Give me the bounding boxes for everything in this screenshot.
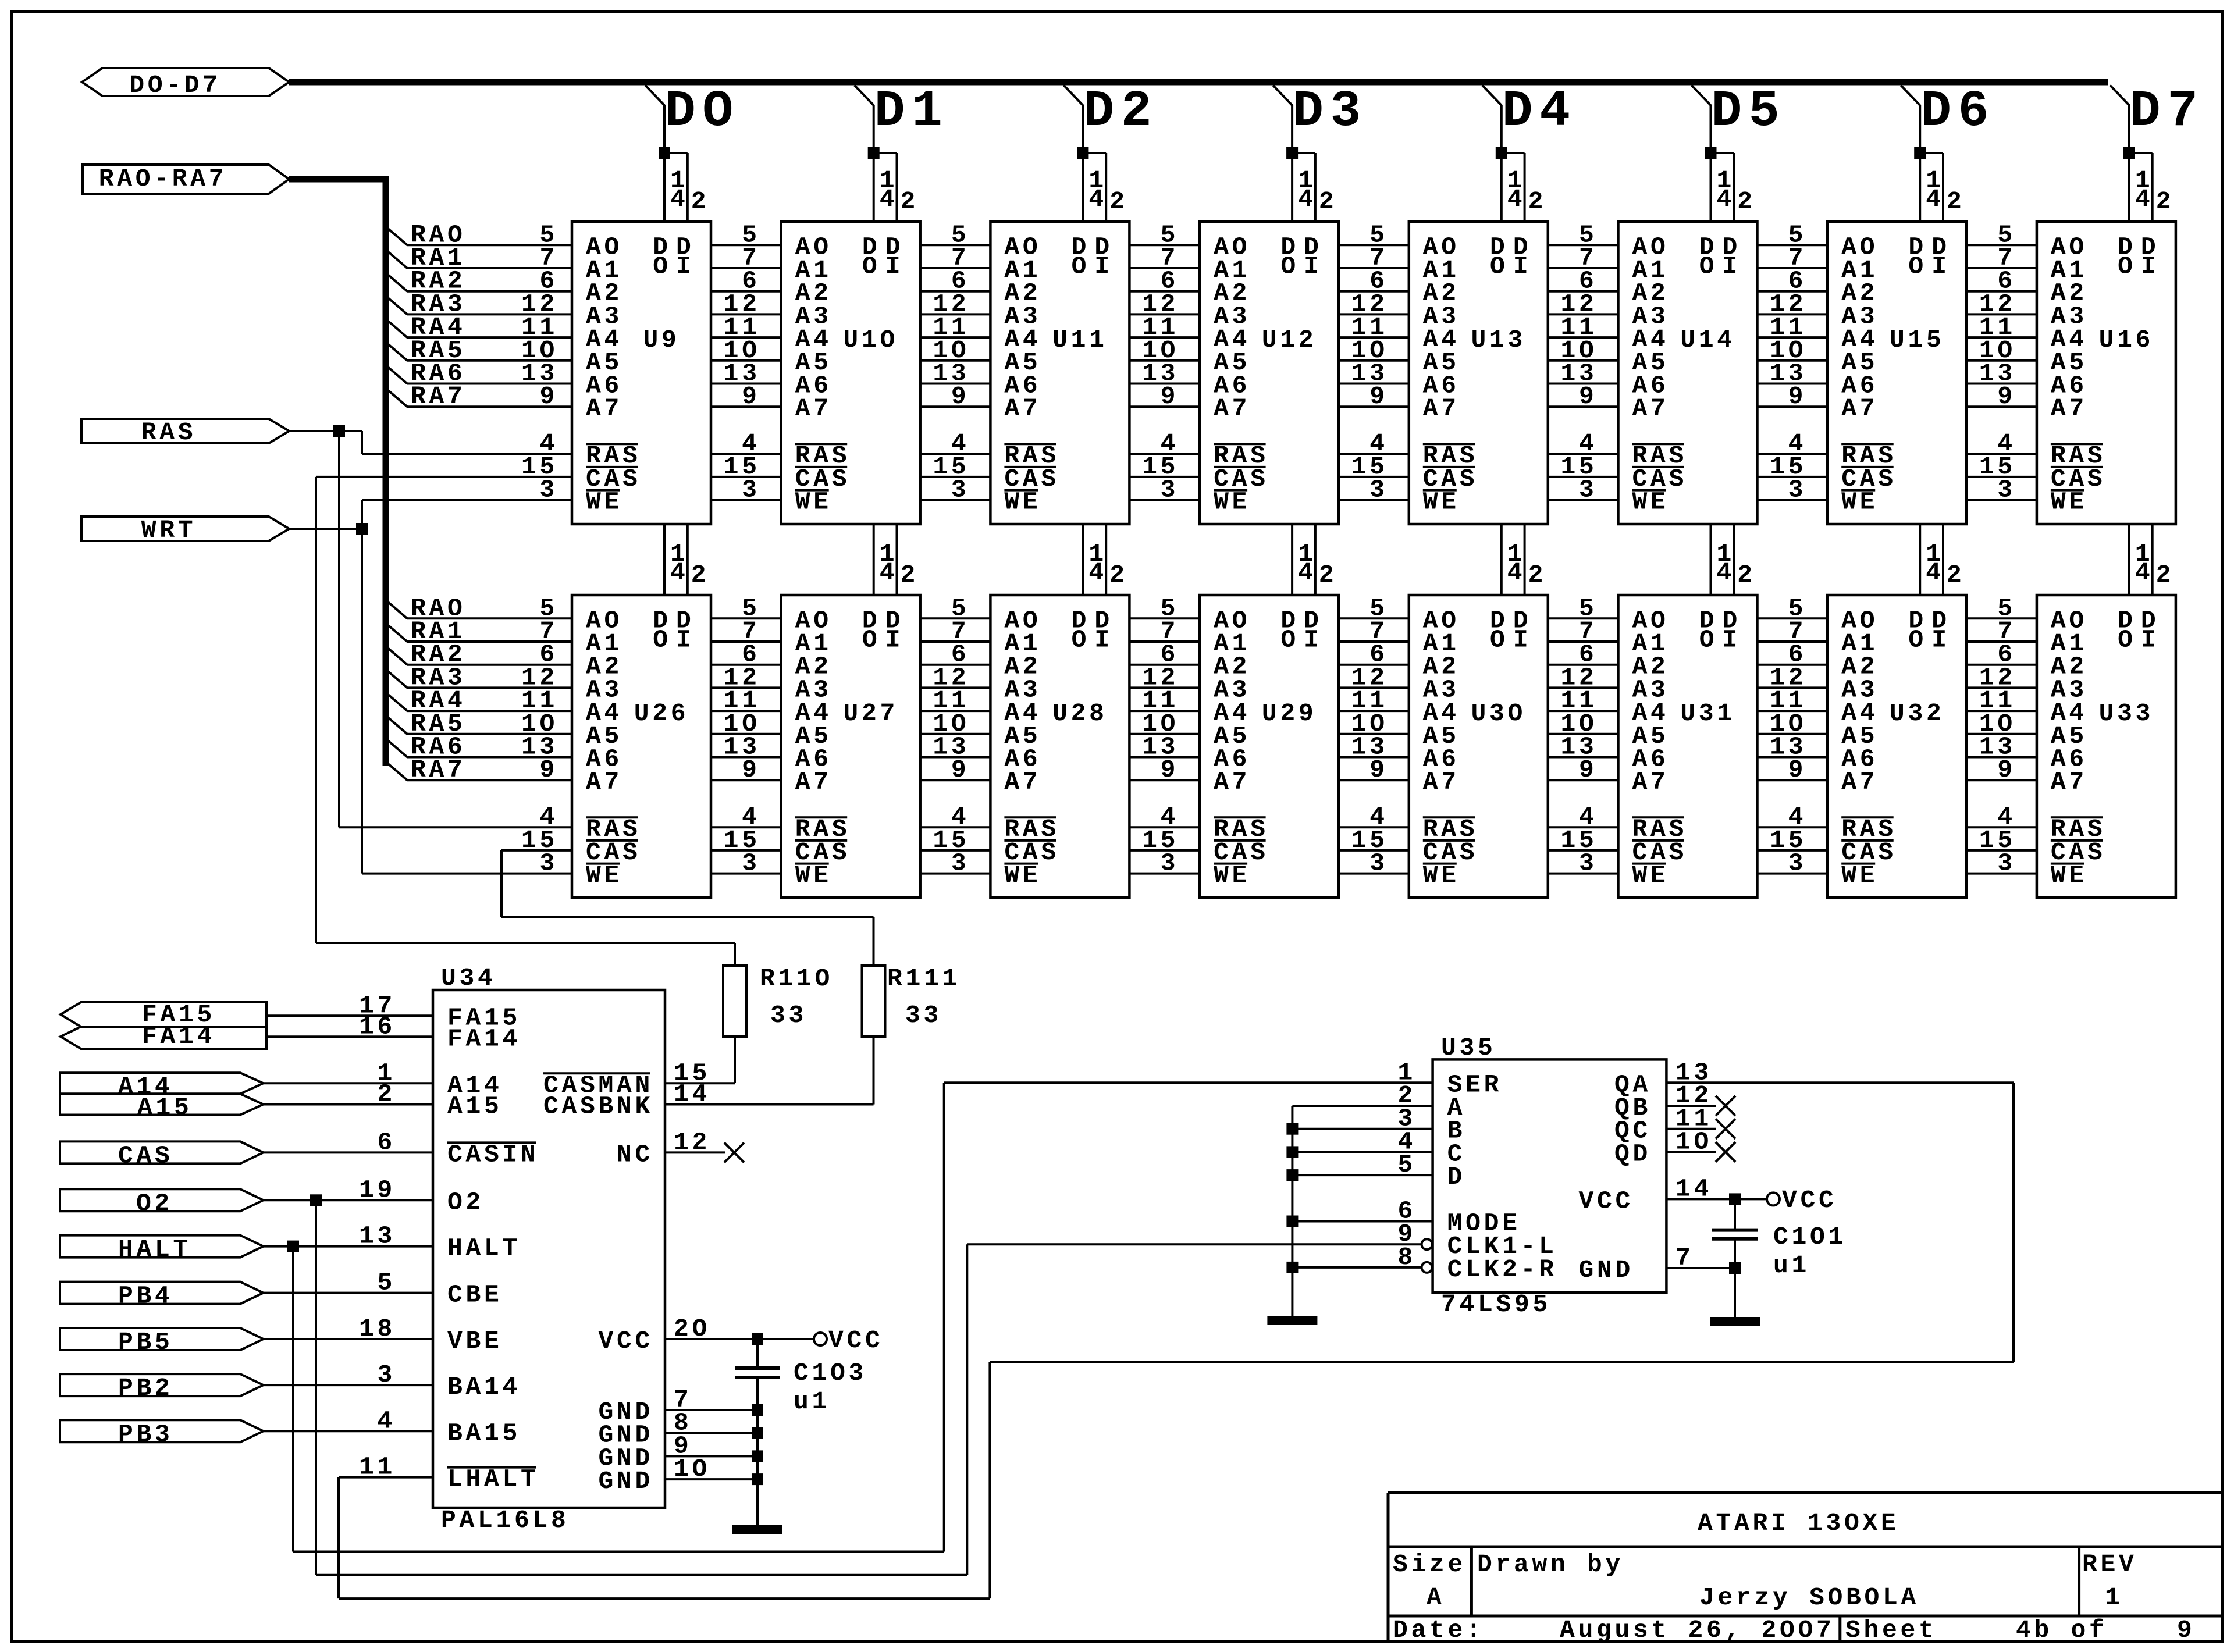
svg-text:U11: U11 bbox=[1052, 326, 1108, 354]
svg-text:VCC: VCC bbox=[598, 1327, 653, 1355]
pin numbers of U31 bbox=[1560, 594, 1597, 877]
wire RA7 row2 bbox=[387, 756, 572, 784]
DRAM U15 bbox=[1827, 222, 1966, 524]
bus label D0-D7 bbox=[82, 68, 289, 99]
node D3 bbox=[1293, 83, 1368, 141]
svg-text:Size: Size bbox=[1393, 1550, 1466, 1579]
wire RA3 row1 bbox=[387, 290, 572, 318]
svg-text:U32: U32 bbox=[1890, 699, 1945, 728]
wire D7 between rows bbox=[2129, 524, 2153, 595]
wire PB5 bbox=[264, 1338, 433, 1340]
pin numbers of U12 bbox=[1142, 220, 1179, 504]
shift register U35 bbox=[1433, 1034, 1667, 1319]
svg-text:RAS: RAS bbox=[141, 418, 197, 447]
svg-text:1: 1 bbox=[2105, 1583, 2123, 1612]
wire CLK1-L (from O2) bbox=[967, 1243, 1421, 1245]
wire D1 bus rip and data pins bbox=[855, 86, 897, 222]
svg-text:U31: U31 bbox=[1680, 699, 1735, 728]
bus RA0-RA7 bbox=[289, 176, 389, 766]
bus D0-D7 bbox=[289, 79, 2108, 86]
net label A15 bbox=[60, 1094, 264, 1122]
wire RA6 row1 bbox=[387, 359, 572, 388]
svg-text:U15: U15 bbox=[1890, 326, 1945, 354]
svg-text:VCC: VCC bbox=[1578, 1187, 1634, 1215]
net label HALT bbox=[60, 1236, 264, 1264]
capacitor C101 bbox=[1712, 1199, 1847, 1317]
DRAM U31 bbox=[1618, 595, 1758, 898]
wire RA2 row2 bbox=[387, 640, 572, 669]
capacitor C103 bbox=[735, 1339, 867, 1525]
svg-text:U1O: U1O bbox=[843, 326, 898, 354]
pin numbers 14,2 of U16 bbox=[2135, 166, 2174, 216]
svg-text:FA14: FA14 bbox=[447, 1024, 521, 1053]
wire CAS row2 to R111 bbox=[501, 850, 874, 966]
svg-text:D1: D1 bbox=[874, 83, 949, 141]
pin numbers 14,2 of U28 bbox=[1088, 540, 1127, 589]
wire WRT / WE bbox=[289, 500, 572, 874]
svg-text:CAS: CAS bbox=[118, 1141, 173, 1170]
DRAM U14 bbox=[1618, 222, 1758, 524]
wire PB4 bbox=[264, 1292, 433, 1294]
svg-text:D5: D5 bbox=[1712, 83, 1787, 141]
net label PB2 bbox=[60, 1374, 264, 1402]
pin numbers 14,2 of U10 bbox=[880, 166, 919, 216]
pin numbers U35 right bbox=[1675, 1058, 1712, 1272]
bus label RA0-RA7 bbox=[83, 165, 289, 194]
wire D3 bus rip and data pins bbox=[1273, 86, 1315, 222]
svg-text:HALT: HALT bbox=[118, 1236, 191, 1264]
DRAM U30 bbox=[1409, 595, 1548, 898]
DRAM U28 bbox=[990, 595, 1129, 898]
svg-text:O2: O2 bbox=[447, 1188, 484, 1216]
svg-text:BA15: BA15 bbox=[447, 1419, 521, 1447]
svg-text:A: A bbox=[1427, 1583, 1445, 1612]
wire PB2 bbox=[264, 1384, 433, 1386]
pin numbers 14,2 of U29 bbox=[1298, 540, 1337, 589]
wire D7 bus rip and data pins bbox=[2110, 86, 2153, 222]
svg-text:FA14: FA14 bbox=[142, 1022, 215, 1051]
resistor R111 bbox=[862, 964, 961, 1105]
node D5 bbox=[1712, 83, 1787, 141]
svg-text:33: 33 bbox=[905, 1001, 942, 1030]
pin numbers of U33 bbox=[1979, 594, 2016, 877]
wires to U32 bbox=[1758, 618, 1828, 873]
svg-text:GND: GND bbox=[598, 1467, 653, 1496]
wire LHALT / QA feedback bbox=[339, 1083, 2014, 1598]
svg-text:U3O: U3O bbox=[1471, 699, 1527, 728]
DRAM U11 bbox=[990, 222, 1129, 524]
DRAM U27 bbox=[781, 595, 920, 898]
wire FA14 bbox=[266, 1035, 433, 1038]
pin numbers 14,2 of U31 bbox=[1717, 540, 1756, 589]
wire CASMAN bbox=[665, 1082, 735, 1084]
wire D5 between rows bbox=[1711, 524, 1734, 595]
wire RA3 row2 bbox=[387, 663, 572, 692]
wire RA1 row1 bbox=[387, 244, 572, 272]
pin numbers U34 right bbox=[674, 1059, 710, 1483]
wire RA4 row1 bbox=[387, 313, 572, 341]
wire RA0 row1 bbox=[387, 220, 572, 249]
DRAM U12 bbox=[1200, 222, 1339, 524]
ground (U35/C101) bbox=[1710, 1317, 1760, 1326]
svg-text:RA7: RA7 bbox=[411, 756, 466, 784]
svg-text:PB4: PB4 bbox=[118, 1282, 173, 1311]
net label FA14 bbox=[61, 1022, 266, 1051]
wires to U11 bbox=[920, 245, 991, 500]
svg-text:U26: U26 bbox=[634, 699, 689, 728]
wire D2 between rows bbox=[1083, 524, 1106, 595]
wires GND pins 7-10 U34 bbox=[665, 1404, 763, 1485]
wires to U15 bbox=[1758, 245, 1828, 500]
svg-text:VBE: VBE bbox=[447, 1327, 503, 1355]
pin numbers of U26 bbox=[521, 594, 558, 877]
wire SER (from HALT) bbox=[944, 1081, 1433, 1084]
wire RA2 row1 bbox=[387, 267, 572, 295]
pin numbers of U16 bbox=[1979, 220, 2016, 504]
net label RAS bbox=[81, 418, 289, 447]
pin numbers of U29 bbox=[1142, 594, 1179, 877]
pin numbers 14,2 of U15 bbox=[1926, 166, 1965, 216]
wire GND pin 7 U35 bbox=[1666, 1262, 1741, 1274]
wires to U33 bbox=[1966, 618, 2037, 873]
wires to U28 bbox=[920, 618, 991, 873]
svg-text:U27: U27 bbox=[843, 699, 898, 728]
ground (U35 inputs) bbox=[1267, 1316, 1317, 1325]
net label PB3 bbox=[60, 1420, 264, 1448]
net label A14 bbox=[60, 1072, 264, 1101]
net label PB4 bbox=[60, 1282, 264, 1311]
wires to U12 bbox=[1129, 245, 1200, 500]
svg-text:ATARI 13OXE: ATARI 13OXE bbox=[1698, 1509, 1899, 1537]
svg-text:PB3: PB3 bbox=[118, 1420, 173, 1448]
svg-text:33: 33 bbox=[770, 1001, 807, 1030]
svg-text:NC: NC bbox=[617, 1140, 653, 1169]
svg-text:A15: A15 bbox=[447, 1092, 503, 1121]
DRAM U10 bbox=[781, 222, 920, 524]
pin numbers of U27 bbox=[724, 594, 760, 877]
svg-text:PAL16L8: PAL16L8 bbox=[441, 1506, 570, 1534]
clock input bubbles U35 bbox=[1422, 1239, 1432, 1273]
svg-text:U16: U16 bbox=[2099, 326, 2154, 354]
pin numbers 14,2 of U33 bbox=[2135, 540, 2174, 589]
pin numbers of U9 bbox=[521, 220, 558, 504]
net label O2 bbox=[60, 1189, 264, 1217]
pin numbers of U13 bbox=[1351, 220, 1388, 504]
wires to U27 bbox=[711, 618, 781, 873]
svg-text:D3: D3 bbox=[1293, 83, 1368, 141]
wires to U16 bbox=[1966, 245, 2037, 500]
svg-text:D6: D6 bbox=[1920, 83, 1995, 141]
svg-text:U29: U29 bbox=[1262, 699, 1317, 728]
svg-text:VCC: VCC bbox=[1782, 1186, 1837, 1215]
node D4 bbox=[1502, 83, 1577, 141]
DRAM U26 bbox=[572, 595, 711, 898]
wire PB3 bbox=[264, 1430, 433, 1432]
svg-text:REV: REV bbox=[2082, 1550, 2137, 1579]
svg-text:4b of: 4b of bbox=[2016, 1616, 2108, 1644]
svg-text:9: 9 bbox=[2177, 1616, 2196, 1644]
DRAM U9 bbox=[572, 222, 711, 524]
svg-text:BA14: BA14 bbox=[447, 1373, 521, 1401]
wire RA6 row2 bbox=[387, 733, 572, 761]
pin numbers 14,2 of U26 bbox=[670, 540, 709, 589]
pin numbers 14,2 of U32 bbox=[1926, 540, 1965, 589]
node D7 bbox=[2130, 83, 2205, 141]
wire FA15 bbox=[266, 1014, 433, 1017]
ground (U34/C103) bbox=[732, 1525, 782, 1534]
DRAM U29 bbox=[1200, 595, 1339, 898]
wire D5 bus rip and data pins bbox=[1692, 86, 1734, 222]
wires to U30 bbox=[1339, 618, 1409, 873]
svg-text:DO: DO bbox=[665, 83, 740, 141]
pin numbers 14,2 of U12 bbox=[1298, 166, 1337, 216]
no-connect QD bbox=[1666, 1142, 1735, 1162]
DRAM U16 bbox=[2037, 222, 2176, 524]
svg-text:August 26, 2OO7: August 26, 2OO7 bbox=[1560, 1616, 1835, 1644]
wires to U29 bbox=[1129, 618, 1200, 873]
svg-text:U34: U34 bbox=[441, 964, 496, 992]
wire D1 between rows bbox=[874, 524, 897, 595]
svg-text:D4: D4 bbox=[1502, 83, 1577, 141]
svg-text:D: D bbox=[1447, 1163, 1466, 1191]
pin numbers of U28 bbox=[933, 594, 969, 877]
svg-text:Date:: Date: bbox=[1393, 1616, 1485, 1644]
wires to U14 bbox=[1548, 245, 1618, 500]
node D2 bbox=[1083, 83, 1158, 141]
svg-text:RA7: RA7 bbox=[411, 382, 466, 411]
svg-text:Sheet: Sheet bbox=[1845, 1616, 1937, 1644]
resistor R110 bbox=[723, 964, 833, 1083]
wire D2 bus rip and data pins bbox=[1063, 86, 1106, 222]
svg-text:C1O1: C1O1 bbox=[1773, 1223, 1847, 1251]
svg-text:Drawn by: Drawn by bbox=[1477, 1550, 1624, 1579]
pin numbers of U14 bbox=[1560, 220, 1597, 504]
PAL U34 bbox=[433, 964, 665, 1534]
svg-text:LHALT: LHALT bbox=[447, 1465, 539, 1494]
wire CAS row1 to R110 bbox=[316, 477, 735, 966]
pin numbers 14,2 of U13 bbox=[1507, 166, 1546, 216]
pin numbers 14,2 of U27 bbox=[880, 540, 919, 589]
DRAM U13 bbox=[1409, 222, 1548, 524]
svg-text:CASIN: CASIN bbox=[447, 1140, 539, 1169]
wire D4 between rows bbox=[1502, 524, 1525, 595]
pin numbers of U10 bbox=[724, 220, 760, 504]
svg-text:GND: GND bbox=[1578, 1256, 1634, 1284]
net label FA15 bbox=[61, 1001, 266, 1029]
svg-text:U33: U33 bbox=[2099, 699, 2154, 728]
DRAM U33 bbox=[2037, 595, 2176, 898]
pin numbers 14,2 of U11 bbox=[1088, 166, 1127, 216]
wire RA5 row1 bbox=[387, 336, 572, 365]
svg-text:CBE: CBE bbox=[447, 1281, 503, 1309]
svg-text:U13: U13 bbox=[1471, 326, 1527, 354]
pin numbers U34 left bbox=[359, 991, 396, 1481]
wire CASBNK bbox=[665, 1103, 874, 1106]
svg-text:u1: u1 bbox=[794, 1387, 830, 1416]
wire D0 between rows bbox=[664, 524, 688, 595]
svg-text:WRT: WRT bbox=[141, 516, 197, 544]
svg-text:U14: U14 bbox=[1680, 326, 1735, 354]
svg-text:O2: O2 bbox=[136, 1189, 173, 1217]
no-connect QB bbox=[1666, 1096, 1735, 1116]
svg-text:74LS95: 74LS95 bbox=[1441, 1290, 1551, 1319]
svg-text:RAO-RA7: RAO-RA7 bbox=[99, 165, 227, 193]
wire RA1 row2 bbox=[387, 617, 572, 646]
net label CAS bbox=[60, 1141, 264, 1170]
svg-text:CLK2-R: CLK2-R bbox=[1447, 1255, 1557, 1284]
wire RA4 row2 bbox=[387, 686, 572, 715]
wire QA bbox=[1666, 1081, 2014, 1084]
pin numbers 14,2 of U30 bbox=[1507, 540, 1546, 589]
net label PB5 bbox=[60, 1328, 264, 1357]
svg-text:VCC: VCC bbox=[828, 1326, 884, 1355]
no-connect pin 12 U34 bbox=[665, 1142, 744, 1162]
wire RA0 row2 bbox=[387, 594, 572, 622]
grounded inputs A,B,C,D,MODE,CLK2-R bbox=[1286, 1106, 1432, 1316]
pin numbers of U32 bbox=[1770, 594, 1806, 877]
svg-text:DO-D7: DO-D7 bbox=[129, 71, 221, 99]
svg-text:A15: A15 bbox=[137, 1094, 193, 1122]
wires to U10 bbox=[711, 245, 781, 500]
wire A14 bbox=[264, 1082, 433, 1084]
pin numbers U35 left bbox=[1397, 1058, 1416, 1272]
svg-text:U12: U12 bbox=[1262, 326, 1317, 354]
pin numbers 14,2 of U14 bbox=[1717, 166, 1756, 216]
svg-text:Jerzy SOBOLA: Jerzy SOBOLA bbox=[1699, 1583, 1919, 1612]
wire D4 bus rip and data pins bbox=[1482, 86, 1525, 222]
node D6 bbox=[1920, 83, 1995, 141]
pin numbers of U30 bbox=[1351, 594, 1388, 877]
wire D0 bus rip and data pins bbox=[645, 86, 688, 222]
DRAM U32 bbox=[1827, 595, 1966, 898]
svg-text:R111: R111 bbox=[887, 964, 961, 993]
pin numbers 14,2 of U9 bbox=[670, 166, 709, 216]
net label WRT bbox=[81, 516, 289, 544]
wire RA5 row2 bbox=[387, 710, 572, 738]
svg-text:CASBNK: CASBNK bbox=[543, 1092, 653, 1121]
svg-text:PB5: PB5 bbox=[118, 1328, 173, 1357]
title block bbox=[1388, 1493, 2222, 1645]
node D0 bbox=[665, 83, 740, 141]
svg-text:PB2: PB2 bbox=[118, 1374, 173, 1402]
svg-text:R11O: R11O bbox=[760, 964, 833, 993]
power VCC (U34 pin 20) bbox=[665, 1326, 884, 1355]
wire D6 bus rip and data pins bbox=[1901, 86, 1943, 222]
power VCC (U35 pin 14) bbox=[1666, 1186, 1837, 1215]
pin numbers of U11 bbox=[933, 220, 969, 504]
svg-text:u1: u1 bbox=[1773, 1251, 1810, 1280]
svg-text:U35: U35 bbox=[1441, 1034, 1496, 1062]
wire D6 between rows bbox=[1920, 524, 1943, 595]
wire D3 between rows bbox=[1292, 524, 1315, 595]
wires to U13 bbox=[1339, 245, 1409, 500]
no-connect QC bbox=[1666, 1119, 1735, 1139]
svg-text:U28: U28 bbox=[1052, 699, 1108, 728]
svg-text:QD: QD bbox=[1614, 1140, 1651, 1168]
wire O2 bbox=[264, 1194, 967, 1575]
svg-text:U9: U9 bbox=[643, 326, 680, 354]
svg-text:HALT: HALT bbox=[447, 1234, 521, 1263]
wire HALT bbox=[264, 1083, 944, 1551]
wire CAS bbox=[264, 1151, 433, 1153]
wire RA7 row1 bbox=[387, 382, 572, 411]
svg-text:D2: D2 bbox=[1083, 83, 1158, 141]
svg-text:D7: D7 bbox=[2130, 83, 2205, 141]
wires to U31 bbox=[1548, 618, 1618, 873]
wire A15 bbox=[264, 1103, 433, 1106]
svg-text:C1O3: C1O3 bbox=[794, 1359, 867, 1387]
node D1 bbox=[874, 83, 949, 141]
pin numbers of U15 bbox=[1770, 220, 1806, 504]
wire RAS bbox=[289, 425, 572, 827]
